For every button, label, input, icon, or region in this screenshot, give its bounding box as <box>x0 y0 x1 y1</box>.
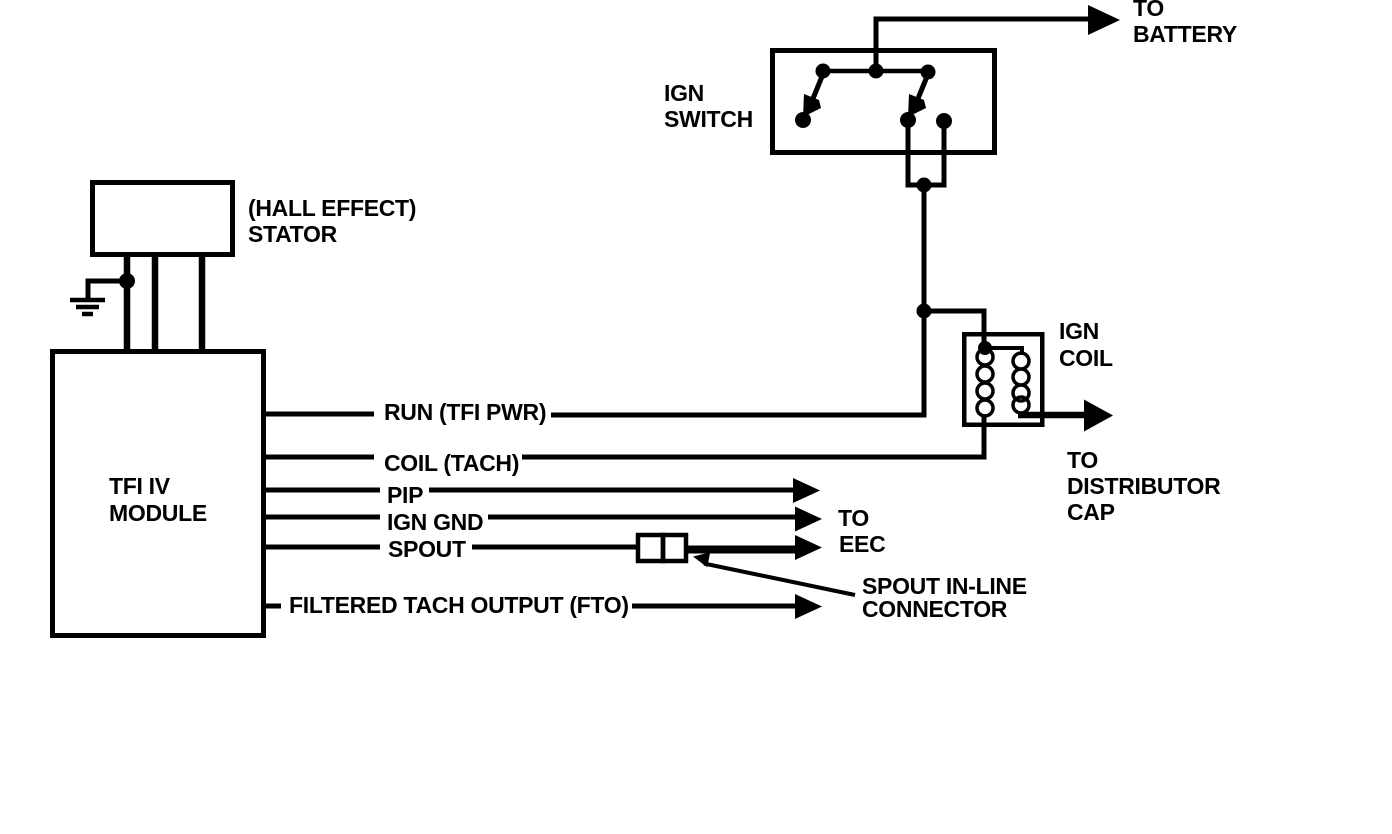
coil secondary winding <box>1013 353 1029 413</box>
ignition coil box T1 <box>964 334 1042 425</box>
switch arm right (RUN contact) <box>908 74 928 117</box>
wire: PIP to EEC <box>429 488 795 493</box>
svg-text:DISTRIBUTOR: DISTRIBUTOR <box>1067 473 1221 499</box>
wire: ground branch <box>88 281 127 299</box>
svg-text:TO: TO <box>1067 447 1098 473</box>
node: stator ground tap <box>119 273 135 289</box>
node: switch feed center <box>869 64 884 79</box>
wire: SPOUT left segment <box>266 545 380 550</box>
svg-text:TFI IV: TFI IV <box>109 473 171 499</box>
wire: switch common bus <box>823 69 928 74</box>
TFI IV module box U1 <box>53 352 264 636</box>
wire: branch to ign coil primary <box>924 311 984 347</box>
node: coil primary top <box>978 341 992 355</box>
wire: COIL (TACH) left segment <box>266 455 374 460</box>
arrowhead: to battery <box>1088 5 1120 35</box>
node: junction below switch <box>917 178 932 193</box>
node: switch terminal run <box>900 112 916 128</box>
svg-text:IGN: IGN <box>664 80 704 106</box>
svg-text:CONNECTOR: CONNECTOR <box>862 596 1008 622</box>
svg-text:(HALL EFFECT): (HALL EFFECT) <box>248 195 416 221</box>
wire: run terminal down <box>908 120 944 185</box>
svg-text:STATOR: STATOR <box>248 221 338 247</box>
svg-text:BATTERY: BATTERY <box>1133 21 1237 47</box>
svg-text:PIP: PIP <box>387 482 423 508</box>
wire: coil primary bottom to COIL (TACH) <box>522 414 984 457</box>
arrowhead: to distributor cap <box>1084 400 1113 432</box>
wire: SPOUT connector to EEC <box>686 546 797 554</box>
svg-text:IGN: IGN <box>1059 318 1099 344</box>
arrowhead: callout leader <box>693 552 710 567</box>
wire: stator lead 3 <box>199 255 206 350</box>
wire: IGN GND to EEC <box>488 515 797 520</box>
svg-text:COIL: COIL <box>1059 345 1113 371</box>
wire: main ignition feed down <box>922 185 927 311</box>
wire: IGN GND left segment <box>266 515 380 520</box>
arrowhead: SPOUT to EEC <box>795 535 822 560</box>
wire: coil secondary to distributor <box>1018 412 1086 419</box>
switch arm left (ACC contact) <box>803 74 823 117</box>
svg-text:MODULE: MODULE <box>109 500 207 526</box>
ignition switch box S1 <box>773 51 995 153</box>
svg-text:EEC: EEC <box>839 531 885 557</box>
hall effect stator box <box>93 183 233 255</box>
svg-text:CAP: CAP <box>1067 499 1115 525</box>
coil primary winding <box>977 349 993 416</box>
node: switch terminal left top <box>816 64 831 79</box>
node: switch terminal start <box>936 113 952 129</box>
svg-text:COIL (TACH): COIL (TACH) <box>384 450 519 476</box>
wire: FTO stub <box>266 604 281 609</box>
ground symbol <box>70 300 105 314</box>
wire: battery feed from ignition switch <box>876 19 1092 75</box>
svg-text:RUN (TFI PWR): RUN (TFI PWR) <box>384 399 546 425</box>
wire: SPOUT to connector <box>472 545 640 550</box>
svg-text:SWITCH: SWITCH <box>664 106 753 132</box>
wire: PIP left segment <box>266 488 380 493</box>
callout leader: spout in-line connector <box>704 564 855 596</box>
wire: feed down to RUN (TFI PWR) <box>551 311 924 415</box>
svg-text:IGN GND: IGN GND <box>387 509 483 535</box>
wire: stator lead 1 <box>124 255 131 350</box>
svg-text:TO: TO <box>1133 0 1164 21</box>
svg-text:TO: TO <box>838 505 869 531</box>
wire: coil internal top link <box>985 348 1022 355</box>
node: switch terminal left bottom <box>795 112 811 128</box>
arrowhead: PIP to EEC <box>793 478 820 503</box>
svg-text:SPOUT: SPOUT <box>388 536 466 562</box>
svg-text:FILTERED TACH OUTPUT (FTO): FILTERED TACH OUTPUT (FTO) <box>289 592 629 618</box>
arrowhead: FTO to EEC <box>795 594 822 619</box>
node: junction to ign coil <box>917 304 932 319</box>
wire: RUN (TFI PWR) left segment <box>266 412 374 417</box>
wire: stator lead 2 <box>152 255 159 350</box>
SPOUT in-line connector body <box>638 535 686 561</box>
arrowhead: IGN GND to EEC <box>795 507 822 532</box>
node: switch terminal right top <box>921 65 936 80</box>
wire: FTO to EEC <box>632 604 797 609</box>
